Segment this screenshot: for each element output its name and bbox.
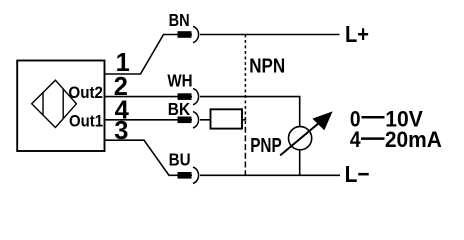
svg-text:BN: BN (169, 10, 190, 30)
svg-text:L+: L+ (345, 21, 369, 47)
connector plug BK (178, 117, 192, 124)
svg-text:WH: WH (167, 70, 192, 90)
svg-text:BK: BK (168, 99, 191, 119)
wire BU to L- (200, 174, 340, 176)
connector socket arc WH (193, 88, 199, 104)
wire WH to meter (200, 97, 300, 127)
dash of 0-10V (362, 116, 385, 119)
wire meter to L- (299, 150, 301, 176)
svg-text:Out2: Out2 (68, 84, 103, 102)
svg-text:BU: BU (169, 150, 191, 170)
wire 1 (pin1 to BN) (105, 35, 193, 75)
wire 2 (pin2 to WH) (105, 96, 193, 98)
meter arrow shaft (280, 121, 321, 155)
svg-text:PNP: PNP (250, 135, 282, 157)
svg-text:4: 4 (350, 127, 361, 152)
meter arrow head (312, 111, 332, 130)
connector plug WH (178, 93, 192, 100)
svg-text:3: 3 (114, 117, 128, 145)
connector plug BN (178, 31, 192, 38)
connector socket arc BU (193, 167, 199, 183)
svg-text:Out1: Out1 (69, 113, 103, 131)
sensor diamond symbol (32, 80, 77, 127)
wire BN to L+ (200, 34, 340, 36)
connector socket arc BN (193, 26, 199, 42)
sensor box U1 (17, 61, 104, 152)
connector plug BU (178, 172, 192, 179)
meter M1 circle (289, 127, 312, 150)
wire resistor to select line (242, 119, 246, 121)
svg-text:NPN: NPN (249, 56, 285, 78)
NPN/PNP selection dashed line (244, 35, 246, 120)
wire 4 (pin4 to BK) (105, 119, 193, 121)
dash of 4-20mA (361, 137, 385, 140)
svg-text:L−: L− (345, 161, 370, 187)
svg-text:20mA: 20mA (385, 127, 442, 152)
connector socket arc BK (193, 112, 199, 128)
load resistor R1 (211, 109, 243, 128)
wire 3 (pin3 to BU) (105, 140, 193, 175)
wire BK to resistor (200, 119, 211, 121)
